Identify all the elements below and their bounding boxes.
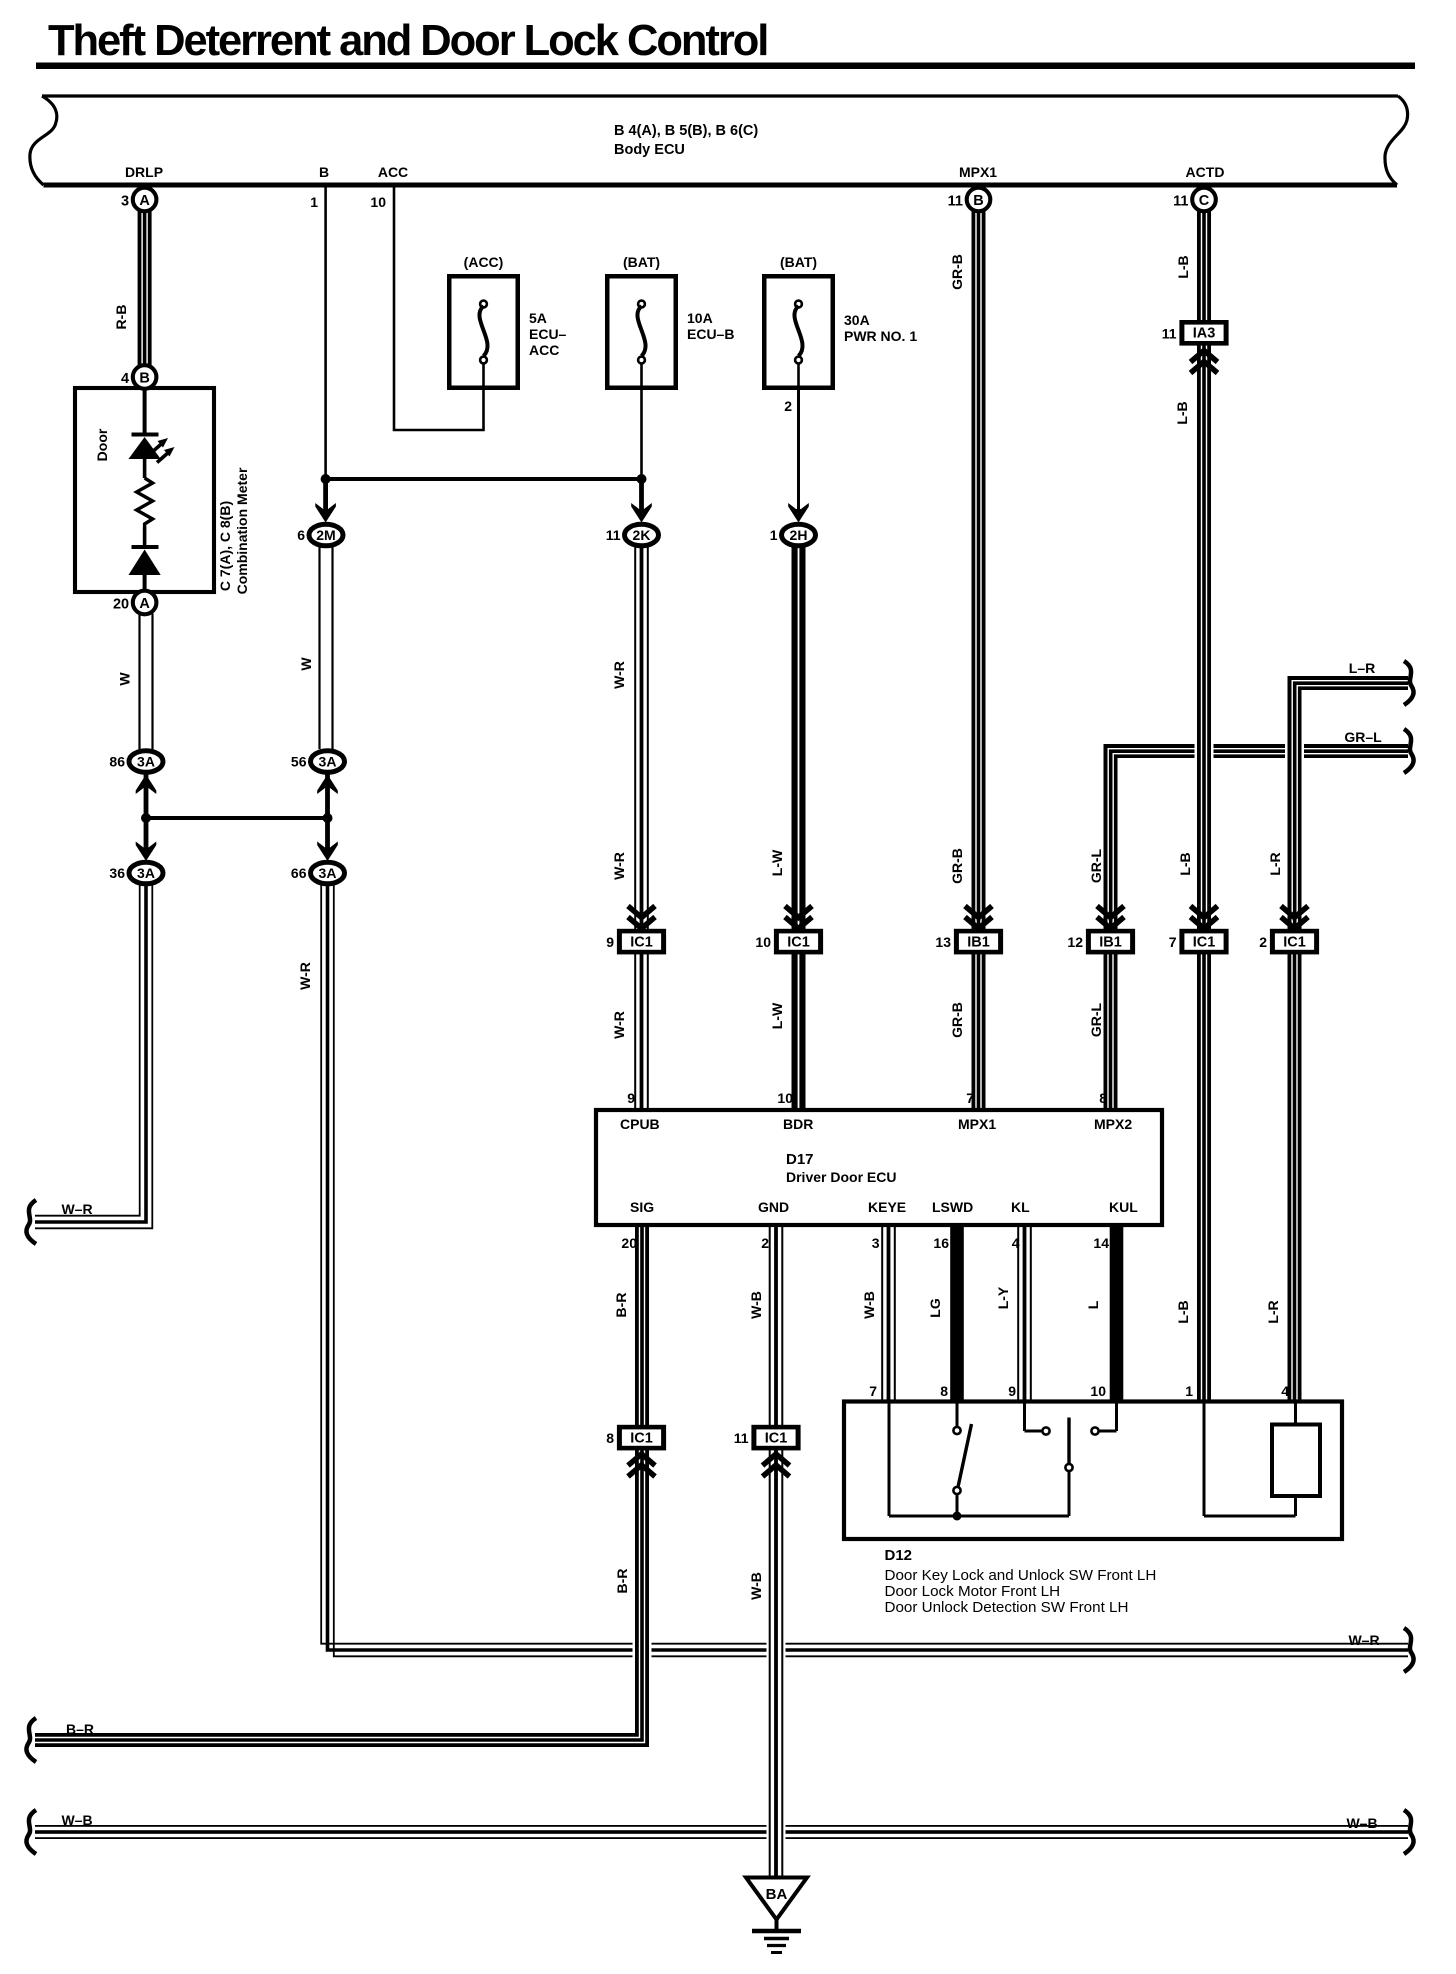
svg-text:2H: 2H	[790, 527, 808, 543]
svg-text:IC1: IC1	[630, 934, 653, 950]
svg-text:2: 2	[784, 398, 792, 414]
svg-text:Body ECU: Body ECU	[614, 142, 685, 158]
svg-text:A: A	[139, 596, 150, 612]
svg-text:L-R: L-R	[1267, 852, 1283, 875]
svg-text:Theft Deterrent and Door Lock: Theft Deterrent and Door Lock Control	[48, 17, 767, 65]
svg-text:KUL: KUL	[1109, 1199, 1138, 1215]
svg-text:ACTD: ACTD	[1186, 164, 1225, 180]
svg-text:ACC: ACC	[378, 164, 408, 180]
svg-text:3A: 3A	[137, 754, 155, 770]
svg-text:GR-B: GR-B	[949, 1002, 965, 1038]
svg-text:IC1: IC1	[630, 1430, 653, 1446]
svg-text:ECU–: ECU–	[529, 326, 567, 342]
svg-text:GR-B: GR-B	[949, 254, 965, 290]
svg-text:W–B: W–B	[1346, 1815, 1377, 1831]
svg-text:KEYE: KEYE	[868, 1199, 906, 1215]
svg-text:ECU–B: ECU–B	[687, 326, 734, 342]
svg-text:W-R: W-R	[611, 1011, 627, 1039]
svg-text:W–R: W–R	[61, 1201, 92, 1217]
svg-text:W–R: W–R	[1348, 1632, 1379, 1648]
svg-text:MPX1: MPX1	[959, 164, 997, 180]
svg-text:11: 11	[606, 527, 621, 543]
svg-text:11: 11	[948, 194, 963, 210]
svg-text:30A: 30A	[844, 312, 870, 328]
svg-text:2: 2	[1259, 934, 1267, 950]
svg-text:CPUB: CPUB	[620, 1116, 660, 1132]
svg-text:Door: Door	[94, 428, 110, 461]
svg-text:W-B: W-B	[861, 1291, 877, 1319]
svg-text:D12: D12	[885, 1547, 913, 1564]
svg-text:(ACC): (ACC)	[464, 254, 504, 270]
svg-text:2K: 2K	[633, 527, 651, 543]
svg-text:IC1: IC1	[1193, 934, 1216, 950]
svg-text:B: B	[319, 164, 329, 180]
svg-text:5A: 5A	[529, 310, 547, 326]
svg-text:IB1: IB1	[967, 934, 990, 950]
svg-text:12: 12	[1067, 934, 1083, 950]
svg-text:14: 14	[1093, 1235, 1109, 1251]
svg-text:W: W	[298, 657, 314, 671]
svg-text:10: 10	[370, 194, 386, 210]
svg-text:MPX1: MPX1	[958, 1116, 996, 1132]
svg-text:W-R: W-R	[611, 661, 627, 689]
svg-text:C: C	[1199, 193, 1210, 209]
svg-text:L-B: L-B	[1175, 255, 1191, 278]
svg-text:11: 11	[734, 1430, 749, 1446]
svg-text:16: 16	[933, 1235, 949, 1251]
svg-text:L-W: L-W	[769, 849, 785, 876]
svg-text:W-R: W-R	[611, 852, 627, 880]
svg-text:8: 8	[940, 1383, 948, 1399]
svg-text:3: 3	[121, 194, 129, 210]
svg-text:1: 1	[770, 527, 778, 543]
svg-text:GR-L: GR-L	[1088, 1002, 1104, 1037]
svg-text:3A: 3A	[319, 865, 337, 881]
svg-text:L-B: L-B	[1177, 852, 1193, 875]
svg-text:2: 2	[761, 1235, 769, 1251]
svg-text:3A: 3A	[319, 754, 337, 770]
svg-text:(BAT): (BAT)	[623, 254, 660, 270]
svg-text:GR-L: GR-L	[1088, 848, 1104, 883]
svg-text:L-Y: L-Y	[995, 1286, 1011, 1309]
svg-text:9: 9	[1008, 1383, 1016, 1399]
svg-text:11: 11	[1162, 325, 1177, 341]
svg-text:B-R: B-R	[613, 1293, 629, 1318]
svg-text:W-R: W-R	[297, 962, 313, 990]
svg-text:6: 6	[297, 527, 305, 543]
svg-text:Door Unlock Detection SW Front: Door Unlock Detection SW Front LH	[885, 1599, 1129, 1616]
svg-text:DRLP: DRLP	[125, 164, 163, 180]
svg-text:GR-B: GR-B	[949, 848, 965, 884]
svg-text:LG: LG	[927, 1298, 943, 1318]
svg-text:C 7(A), C 8(B): C 7(A), C 8(B)	[217, 501, 233, 591]
svg-text:ACC: ACC	[529, 342, 559, 358]
svg-text:56: 56	[291, 754, 307, 770]
svg-text:B-R: B-R	[614, 1569, 630, 1594]
svg-text:W: W	[117, 672, 133, 686]
svg-text:4: 4	[121, 371, 129, 387]
svg-text:GR–L: GR–L	[1344, 729, 1382, 745]
svg-text:9: 9	[627, 1090, 635, 1106]
svg-text:86: 86	[109, 754, 125, 770]
svg-text:36: 36	[109, 865, 125, 881]
svg-text:L: L	[1085, 1300, 1101, 1309]
svg-text:20: 20	[113, 597, 129, 613]
svg-text:10: 10	[777, 1090, 793, 1106]
svg-text:PWR NO. 1: PWR NO. 1	[844, 328, 917, 344]
svg-text:1: 1	[310, 194, 318, 210]
svg-text:IC1: IC1	[1283, 934, 1306, 950]
svg-text:9: 9	[606, 934, 614, 950]
svg-text:A: A	[139, 193, 150, 209]
svg-text:1: 1	[1185, 1383, 1193, 1399]
svg-text:10: 10	[755, 934, 771, 950]
svg-text:IB1: IB1	[1099, 934, 1122, 950]
svg-text:(BAT): (BAT)	[780, 254, 817, 270]
svg-text:IA3: IA3	[1193, 326, 1216, 342]
svg-text:Door Lock Motor Front LH: Door Lock Motor Front LH	[885, 1583, 1061, 1600]
svg-text:BDR: BDR	[783, 1116, 813, 1132]
svg-text:10A: 10A	[687, 310, 713, 326]
svg-text:B 4(A), B 5(B), B 6(C): B 4(A), B 5(B), B 6(C)	[614, 123, 758, 139]
svg-text:SIG: SIG	[630, 1199, 654, 1215]
svg-text:20: 20	[621, 1235, 637, 1251]
svg-text:D17: D17	[786, 1151, 814, 1168]
svg-text:Driver Door ECU: Driver Door ECU	[786, 1169, 896, 1185]
svg-text:IC1: IC1	[787, 934, 810, 950]
svg-text:66: 66	[291, 865, 307, 881]
svg-text:B–R: B–R	[66, 1721, 94, 1737]
svg-text:3A: 3A	[137, 865, 155, 881]
svg-text:IC1: IC1	[765, 1430, 788, 1446]
svg-text:3: 3	[872, 1235, 880, 1251]
svg-text:7: 7	[869, 1383, 877, 1399]
svg-text:LSWD: LSWD	[932, 1199, 973, 1215]
svg-text:Door Key Lock and Unlock SW Fr: Door Key Lock and Unlock SW Front LH	[885, 1567, 1157, 1584]
svg-text:L–R: L–R	[1349, 660, 1375, 676]
svg-text:L-B: L-B	[1174, 401, 1190, 424]
svg-text:4: 4	[1281, 1383, 1289, 1399]
svg-text:7: 7	[966, 1090, 974, 1106]
svg-text:4: 4	[1012, 1235, 1020, 1251]
svg-text:B: B	[139, 370, 149, 386]
svg-text:W-B: W-B	[748, 1291, 764, 1319]
svg-text:L-B: L-B	[1175, 1300, 1191, 1323]
svg-text:10: 10	[1090, 1383, 1106, 1399]
svg-text:W–B: W–B	[61, 1812, 92, 1828]
svg-text:L-R: L-R	[1265, 1300, 1281, 1323]
svg-text:GND: GND	[758, 1199, 789, 1215]
svg-text:11: 11	[1173, 194, 1188, 210]
svg-text:L-W: L-W	[769, 1002, 785, 1029]
svg-text:7: 7	[1169, 934, 1177, 950]
svg-text:B: B	[973, 193, 983, 209]
svg-text:13: 13	[935, 934, 951, 950]
svg-text:8: 8	[606, 1430, 614, 1446]
svg-text:KL: KL	[1011, 1199, 1030, 1215]
svg-text:8: 8	[1099, 1090, 1107, 1106]
svg-text:2M: 2M	[316, 527, 335, 543]
svg-text:Combination Meter: Combination Meter	[234, 467, 250, 594]
svg-text:BA: BA	[766, 1886, 788, 1903]
svg-text:MPX2: MPX2	[1094, 1116, 1132, 1132]
svg-text:W-B: W-B	[748, 1572, 764, 1600]
svg-text:R-B: R-B	[113, 305, 129, 330]
